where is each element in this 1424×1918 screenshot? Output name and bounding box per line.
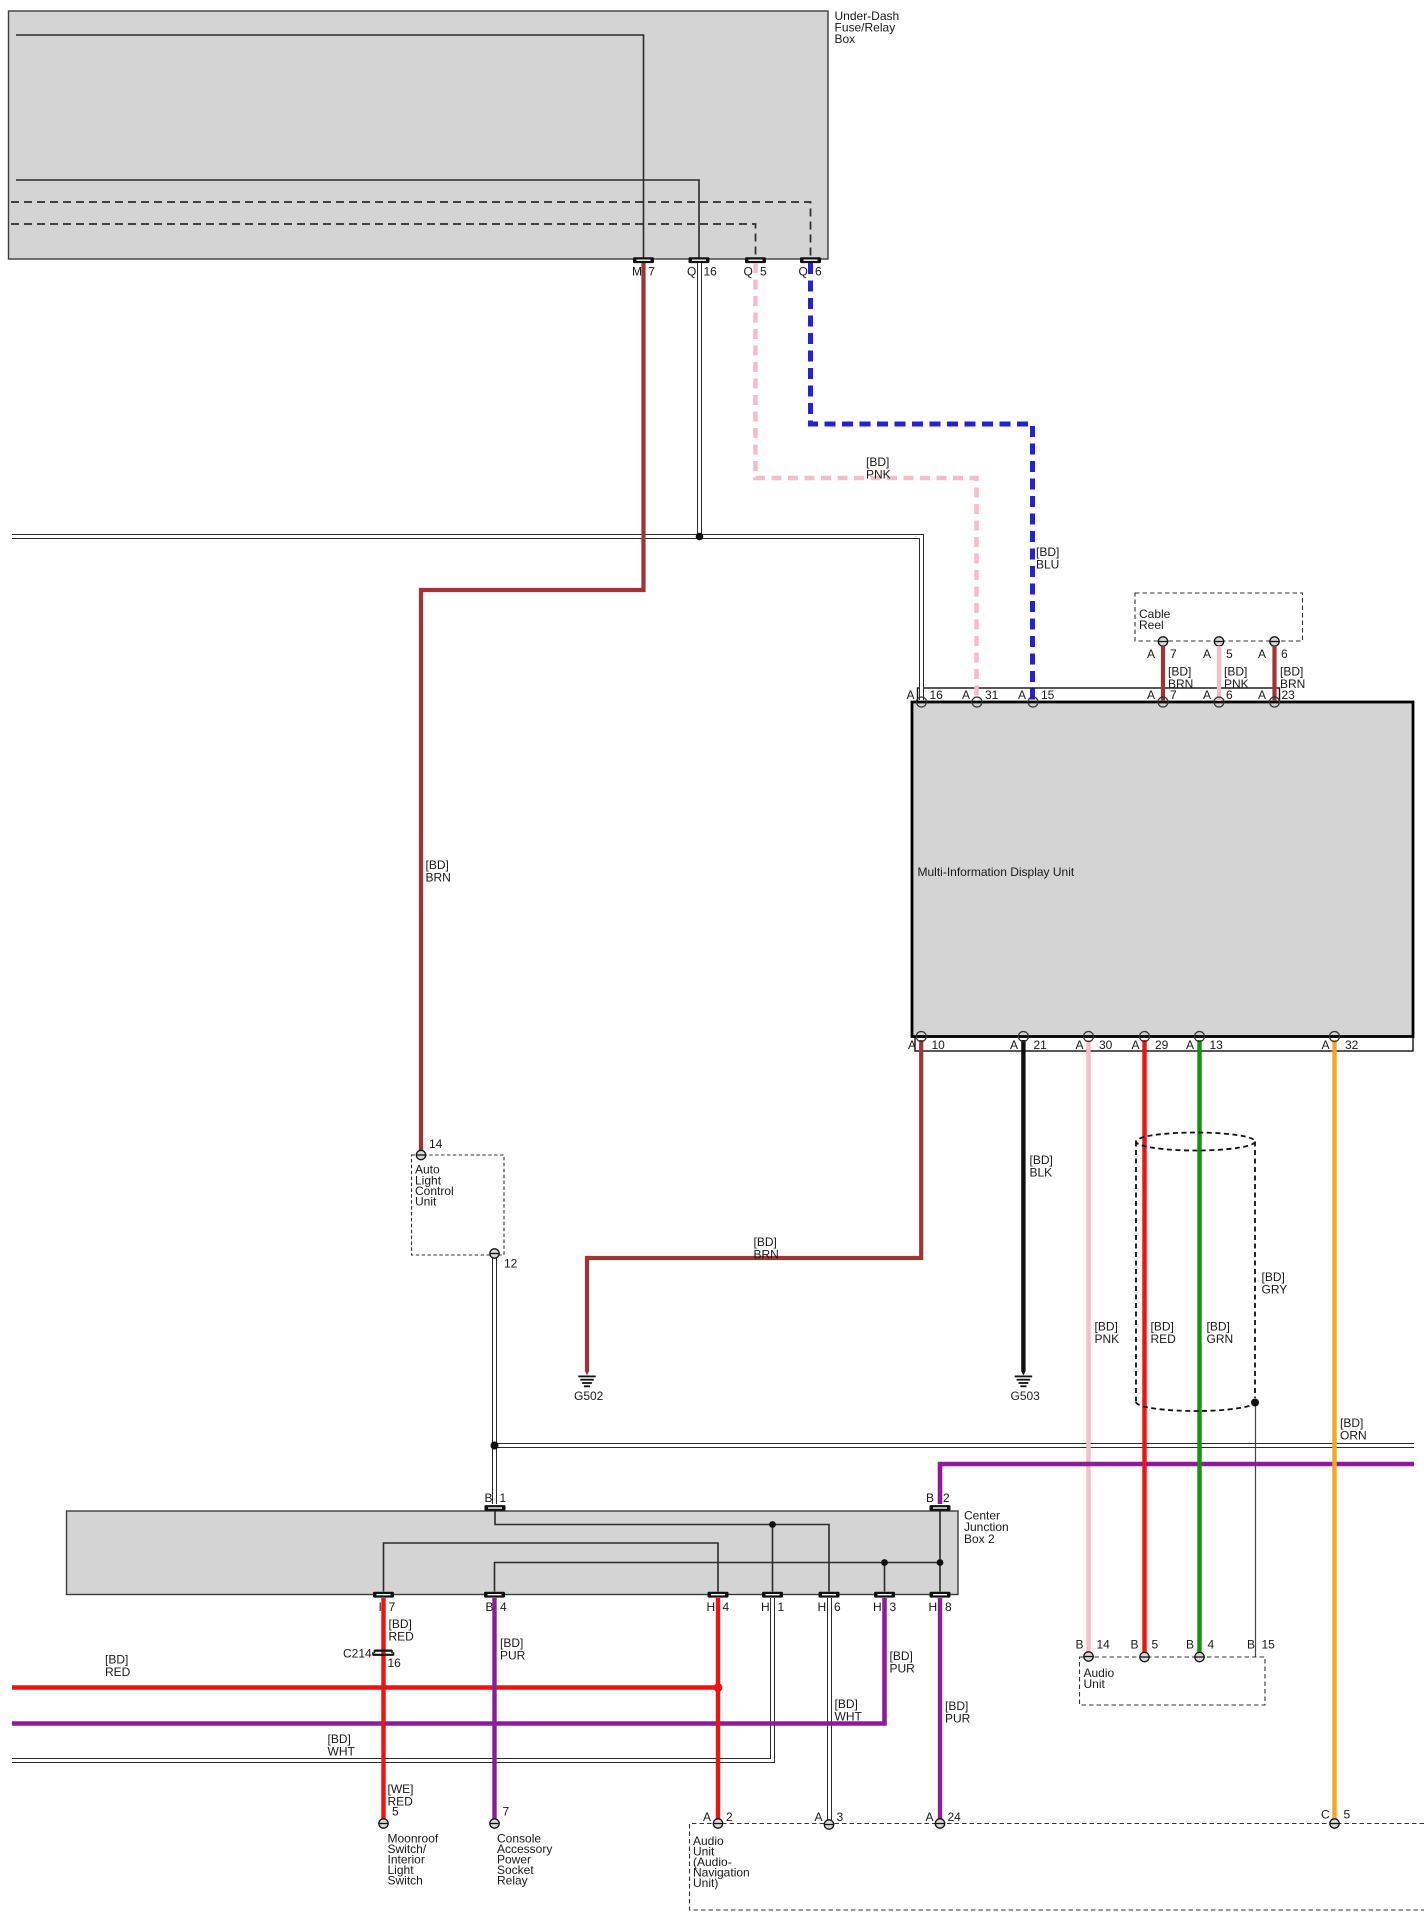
Audio Unit — [1080, 1657, 1266, 1705]
svg-text:5: 5 — [760, 265, 767, 279]
junction dot Q16/bus — [696, 533, 704, 541]
svg-text:Reel: Reel — [1139, 618, 1164, 632]
svg-text:A: A — [1258, 647, 1266, 661]
wire WHT bus to MID A16 — [12, 537, 922, 701]
Multi-Information Display Unit — [912, 688, 1413, 1051]
svg-text:A: A — [1258, 688, 1266, 702]
svg-text:7: 7 — [503, 1805, 510, 1819]
svg-text:BLK: BLK — [1030, 1166, 1053, 1180]
wire [BD] GRN from MID A13 to Audio Unit B4 — [1200, 1040, 1234, 1653]
wire [BD] BLK from MID A21 to G503 — [1021, 1040, 1053, 1376]
svg-text:A: A — [1322, 1038, 1330, 1052]
pin A 6 (MID top) — [1203, 688, 1233, 707]
svg-text:A: A — [908, 1038, 916, 1052]
terminal A 3 (Audio-Navigation Unit) — [815, 1810, 844, 1829]
svg-text:B: B — [1247, 1638, 1255, 1652]
connector H 4 — [707, 1592, 730, 1614]
terminal B 5 (Audio Unit) — [1131, 1638, 1159, 1662]
svg-text:H: H — [873, 1600, 882, 1614]
wire: CJB2 internal B4/B2 to H3/H8 — [495, 1511, 944, 1592]
wire [BD] PNK dashed from Q5 to MID A31 — [756, 263, 977, 700]
svg-text:2: 2 — [943, 1491, 950, 1505]
wire WHT from Q16 — [697, 263, 702, 537]
shield [BD] GRY around RED and GRN wires — [1136, 1133, 1287, 1412]
Console Accessory Power Socket Relay — [497, 1832, 552, 1888]
pin A 31 (MID top) — [962, 688, 999, 707]
terminal B 14 (Audio Unit) — [1076, 1638, 1111, 1662]
wire: fuse box internal dashed feed to Q5 — [11, 224, 756, 258]
svg-text:6: 6 — [834, 1600, 841, 1614]
svg-text:PUR: PUR — [890, 1662, 916, 1676]
svg-text:A: A — [1203, 688, 1211, 702]
wire [BD] BLU dashed from Q6 to MID A15 — [811, 263, 1060, 700]
shield junction dot — [1251, 1399, 1259, 1407]
connector Q 6 — [799, 257, 823, 278]
svg-text:29: 29 — [1155, 1038, 1169, 1052]
connector Q 16 — [687, 257, 717, 278]
connector M 7 — [632, 257, 655, 278]
connector B 4 — [484, 1592, 507, 1614]
connector H 6 — [818, 1592, 842, 1614]
svg-text:4: 4 — [1208, 1638, 1215, 1652]
svg-text:5: 5 — [392, 1805, 399, 1819]
svg-text:13: 13 — [1210, 1038, 1224, 1052]
wire [BD] PUR from B4 to Console relay — [495, 1598, 526, 1819]
terminal 12 (Auto Light Control Unit) — [490, 1249, 518, 1271]
svg-text:6: 6 — [815, 265, 822, 279]
svg-text:GRY: GRY — [1262, 1283, 1288, 1297]
pin A 7 (MID top) — [1147, 688, 1177, 707]
svg-text:4: 4 — [500, 1600, 507, 1614]
junction dot RED bus/H4 — [714, 1683, 723, 1692]
wire: CJB2 internal I7 to H4 — [384, 1543, 719, 1592]
svg-text:16: 16 — [930, 688, 944, 702]
wire [BD] RED from MID A29 to Audio Unit B5 — [1145, 1040, 1177, 1653]
svg-text:PUR: PUR — [945, 1712, 971, 1726]
svg-text:B: B — [485, 1491, 493, 1505]
wire [BD] PNK Cable Reel A5 to MID A6 — [1219, 646, 1249, 701]
svg-text:24: 24 — [948, 1810, 962, 1824]
svg-text:23: 23 — [1282, 688, 1296, 702]
svg-text:B: B — [1186, 1638, 1194, 1652]
Under-Dash Fuse/Relay Box — [9, 9, 900, 259]
svg-text:Unit): Unit) — [693, 1876, 718, 1890]
svg-text:6: 6 — [1281, 647, 1288, 661]
svg-text:Q: Q — [744, 265, 753, 279]
svg-text:BRN: BRN — [426, 871, 451, 885]
wire [BD] PUR from H3 to left edge — [12, 1598, 915, 1724]
svg-text:12: 12 — [504, 1257, 518, 1271]
terminal C 5 (Audio-Navigation Unit) — [1321, 1808, 1351, 1829]
svg-text:RED: RED — [389, 1630, 415, 1644]
svg-text:H: H — [761, 1600, 770, 1614]
svg-text:WHT: WHT — [328, 1745, 356, 1759]
svg-text:A: A — [1132, 1038, 1140, 1052]
svg-text:Box 2: Box 2 — [964, 1532, 995, 1546]
svg-text:5: 5 — [1344, 1808, 1351, 1822]
terminal B 4 (Audio Unit) — [1186, 1638, 1215, 1662]
svg-text:B: B — [1076, 1638, 1084, 1652]
wire [BD] PUR from H8 to Audio Unit A24 — [940, 1598, 971, 1819]
pin A 29 (MID bottom) — [1132, 1032, 1169, 1053]
junction dot WHT bus — [491, 1442, 499, 1450]
terminal 14 (Auto Light Control Unit) — [416, 1137, 442, 1160]
svg-text:RED: RED — [105, 1665, 131, 1679]
svg-text:1: 1 — [778, 1600, 785, 1614]
svg-text:PNK: PNK — [866, 468, 891, 482]
svg-text:7: 7 — [1170, 647, 1177, 661]
connector C214 — [343, 1647, 401, 1671]
wire [BD] ORN from MID A32 to C5 — [1335, 1040, 1367, 1819]
svg-text:A: A — [815, 1810, 823, 1824]
svg-text:A: A — [926, 1810, 934, 1824]
wire [BD] BRN from M7 to Auto Light Control Unit pin 14 — [421, 263, 644, 1150]
svg-text:3: 3 — [890, 1600, 897, 1614]
pin A 13 (MID bottom) — [1186, 1032, 1223, 1053]
svg-text:A: A — [1186, 1038, 1194, 1052]
svg-text:ORN: ORN — [1340, 1429, 1367, 1443]
svg-text:Multi-Information Display Unit: Multi-Information Display Unit — [918, 865, 1075, 879]
Moonroof Switch/Interior Light Switch — [388, 1832, 439, 1888]
svg-text:32: 32 — [1345, 1038, 1359, 1052]
wire: fuse box internal feed to Q16 — [16, 180, 699, 258]
svg-text:4: 4 — [723, 1600, 730, 1614]
svg-text:15: 15 — [1262, 1638, 1276, 1652]
wire: CJB2 internal B1 to H1/H6 — [495, 1511, 829, 1592]
terminal 5 (Moonroof Switch) — [379, 1805, 399, 1829]
svg-text:1: 1 — [500, 1491, 507, 1505]
svg-text:A: A — [962, 688, 970, 702]
pin A 23 (MID top) — [1258, 688, 1295, 707]
svg-text:15: 15 — [1041, 688, 1055, 702]
svg-text:Unit: Unit — [415, 1195, 437, 1209]
svg-text:M: M — [632, 265, 642, 279]
svg-text:16: 16 — [388, 1656, 402, 1670]
svg-text:RED: RED — [1151, 1332, 1177, 1346]
svg-text:8: 8 — [945, 1600, 952, 1614]
ground G502 — [574, 1376, 604, 1404]
svg-text:Relay: Relay — [497, 1874, 528, 1888]
svg-text:G502: G502 — [574, 1389, 604, 1403]
svg-text:B: B — [926, 1491, 934, 1505]
svg-text:PUR: PUR — [500, 1649, 526, 1663]
Center Junction Box 2 — [67, 1509, 1009, 1595]
svg-text:A: A — [1010, 1038, 1018, 1052]
svg-text:H: H — [818, 1600, 827, 1614]
wire: fuse box internal dashed feed to Q6 — [11, 202, 811, 258]
svg-text:A: A — [1147, 647, 1155, 661]
Auto Light Control Unit — [412, 1155, 505, 1255]
svg-text:GRN: GRN — [1207, 1332, 1234, 1346]
svg-text:31: 31 — [985, 688, 999, 702]
svg-text:21: 21 — [1034, 1038, 1048, 1052]
connector B 1 — [485, 1491, 507, 1511]
wire RED from H4 to Audio Unit A2 — [716, 1598, 720, 1820]
svg-text:A: A — [1203, 647, 1211, 661]
wire [BD] RED bus from left edge to H4 — [12, 1653, 718, 1688]
svg-text:7: 7 — [389, 1600, 396, 1614]
wire WHT from H6 to Audio Unit A3 — [830, 1598, 863, 1820]
wire WHT bus from Auto Light Control Unit pin 12 to right edge — [495, 1443, 1415, 1448]
svg-text:C: C — [1321, 1808, 1330, 1822]
svg-text:Q: Q — [799, 265, 808, 279]
connector B 2 — [926, 1491, 951, 1511]
terminal A 5 (Cable Reel) — [1203, 637, 1233, 661]
svg-text:7: 7 — [648, 265, 655, 279]
wire: fuse box internal feed to M7 — [16, 35, 644, 258]
svg-text:Q: Q — [687, 265, 696, 279]
wire [BD] BRN from MID A10 to G502 — [585, 1040, 921, 1376]
wire [BD] BRN Cable Reel A6 to MID A23 — [1275, 646, 1306, 701]
wire [BD] PUR bus from right edge to B2 — [940, 1464, 1414, 1504]
wire [BD] PNK from MID A30 to Audio Unit B14 — [1089, 1040, 1120, 1652]
svg-text:3: 3 — [837, 1810, 844, 1824]
svg-text:10: 10 — [932, 1038, 946, 1052]
Cable Reel — [1135, 593, 1303, 641]
svg-text:G503: G503 — [1011, 1389, 1041, 1403]
connector Q 5 — [744, 257, 768, 278]
terminal A 6 (Cable Reel) — [1258, 637, 1288, 661]
terminal 7 (Console relay) — [490, 1805, 510, 1829]
svg-text:PNK: PNK — [1095, 1332, 1120, 1346]
pin A 16 (MID top) — [907, 688, 944, 707]
connector H 1 — [761, 1592, 785, 1614]
svg-text:C214: C214 — [343, 1647, 372, 1661]
pin A 10 (MID bottom) — [908, 1032, 945, 1053]
svg-text:A: A — [907, 688, 915, 702]
svg-text:BLU: BLU — [1036, 558, 1059, 572]
pin A 30 (MID bottom) — [1076, 1032, 1113, 1053]
shield drain wire to Audio Unit B15 — [1255, 1400, 1257, 1657]
svg-text:Box: Box — [835, 32, 856, 46]
svg-text:B: B — [1131, 1638, 1139, 1652]
svg-text:A: A — [1076, 1038, 1084, 1052]
pin A 32 (MID bottom) — [1322, 1032, 1359, 1053]
svg-text:Unit: Unit — [1084, 1677, 1106, 1691]
svg-text:A: A — [1018, 688, 1026, 702]
svg-text:14: 14 — [1097, 1638, 1111, 1652]
svg-text:Switch: Switch — [388, 1874, 423, 1888]
svg-text:5: 5 — [1152, 1638, 1159, 1652]
svg-text:2: 2 — [726, 1810, 733, 1824]
svg-text:H: H — [929, 1600, 938, 1614]
pin A 21 (MID bottom) — [1010, 1032, 1047, 1053]
wire WHT from H1 to left edge — [12, 1598, 773, 1761]
svg-text:BRN: BRN — [754, 1248, 779, 1262]
connector H 3 — [873, 1592, 897, 1614]
svg-text:7: 7 — [1170, 688, 1177, 702]
svg-text:A: A — [703, 1810, 711, 1824]
svg-text:6: 6 — [1226, 688, 1233, 702]
pin A 15 (MID top) — [1018, 688, 1055, 707]
wire WHT from Auto Light Control Unit pin 12 to B1 — [492, 1258, 497, 1504]
terminal A 7 (Cable Reel) — [1147, 637, 1177, 661]
connector I 7 — [373, 1592, 396, 1614]
Audio Unit (Audio-Navigation Unit) — [690, 1824, 1424, 1911]
svg-text:5: 5 — [1226, 647, 1233, 661]
svg-text:30: 30 — [1099, 1038, 1113, 1052]
svg-text:H: H — [707, 1600, 716, 1614]
ground G503 — [1011, 1376, 1041, 1404]
connector H 8 — [929, 1592, 953, 1614]
wire [BD] BRN Cable Reel A7 to MID A7 — [1163, 646, 1193, 701]
svg-text:16: 16 — [704, 265, 718, 279]
terminal A 24 (Audio-Navigation Unit) — [926, 1810, 962, 1828]
wire [BD]/[WE] RED from I7 to Moonroof Switch — [384, 1598, 415, 1819]
svg-text:14: 14 — [429, 1137, 443, 1151]
terminal A 2 (Audio-Navigation Unit) — [703, 1810, 733, 1828]
svg-text:A: A — [1147, 688, 1155, 702]
node B 15 (Audio Unit shield) — [1247, 1638, 1275, 1652]
